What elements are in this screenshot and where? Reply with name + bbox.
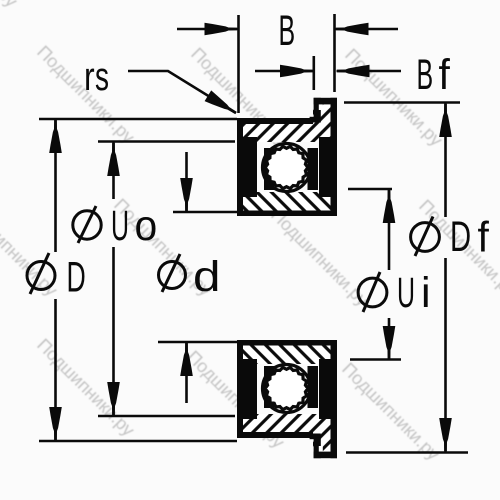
- svg-text:B: B: [279, 7, 296, 55]
- svg-text:f: f: [478, 213, 490, 261]
- svg-text:U: U: [111, 202, 129, 250]
- svg-text:U: U: [397, 269, 415, 317]
- svg-text:B: B: [417, 51, 434, 99]
- svg-text:d: d: [193, 252, 220, 300]
- svg-text:D: D: [67, 253, 86, 301]
- svg-text:r: r: [84, 54, 95, 99]
- svg-text:D: D: [450, 212, 471, 260]
- svg-text:f: f: [439, 50, 451, 98]
- svg-text:i: i: [421, 269, 431, 317]
- svg-text:o: o: [135, 201, 158, 249]
- svg-text:s: s: [95, 55, 109, 99]
